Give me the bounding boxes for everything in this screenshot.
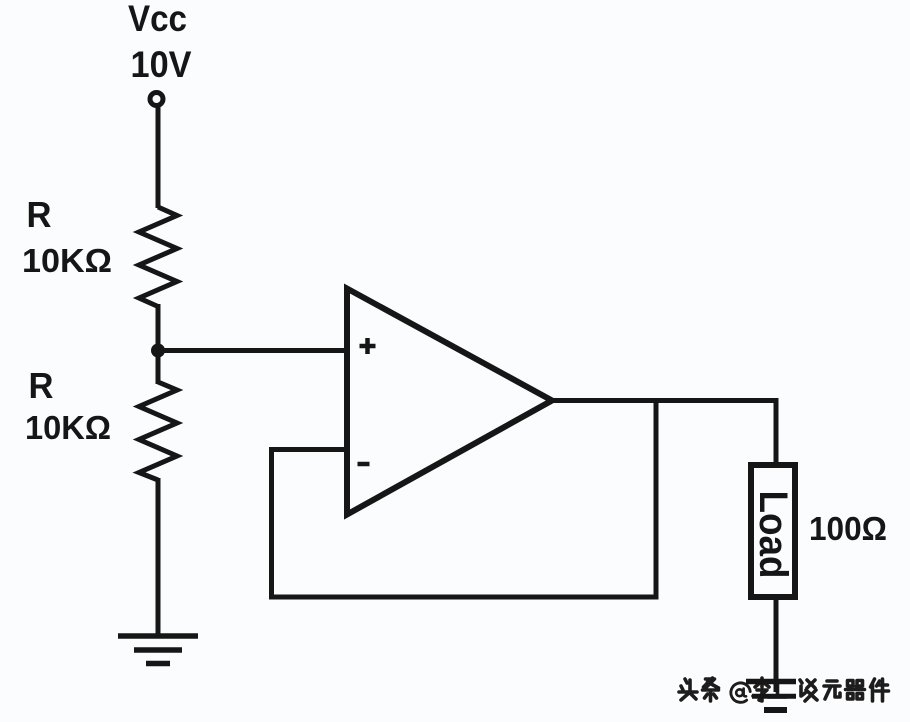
svg-text:Vcc: Vcc (128, 0, 187, 39)
svg-text:Load: Load (751, 491, 795, 579)
svg-text:10V: 10V (131, 44, 192, 85)
svg-text:100Ω: 100Ω (809, 510, 887, 547)
svg-text:R: R (29, 365, 54, 406)
svg-text:R: R (27, 194, 52, 235)
svg-text:10KΩ: 10KΩ (25, 409, 111, 446)
svg-text:10KΩ: 10KΩ (22, 242, 112, 279)
